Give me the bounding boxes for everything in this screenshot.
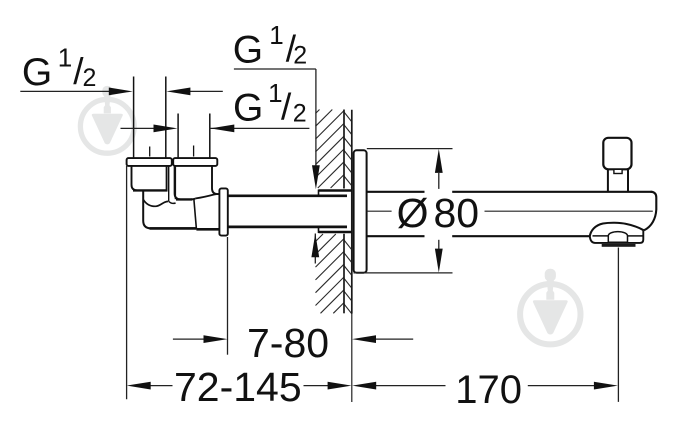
- elbow inner scallop: [143, 199, 168, 206]
- wall hatching: [316, 110, 345, 314]
- spout centreline: [367, 210, 653, 212]
- right union cup: [175, 166, 196, 200]
- aerator bulge: [590, 223, 644, 237]
- watermark bottom-right: [520, 269, 580, 345]
- dim 72-145: lines and arrows: [127, 166, 329, 399]
- svg-text:2: 2: [293, 100, 307, 128]
- escutcheon bar right: [173, 158, 217, 166]
- nut top edge: [195, 194, 219, 199]
- dim G1/2 right stub: label: [233, 78, 307, 129]
- svg-text:/: /: [281, 87, 292, 128]
- svg-text:G: G: [22, 51, 52, 94]
- union washer at pipe: [219, 188, 227, 235]
- escutcheon bar left: [127, 158, 172, 166]
- dim Ø80: extension lines: [354, 149, 453, 273]
- aerator collar: [590, 230, 644, 243]
- dim G1/2 left stub: leader and arrows: [20, 90, 223, 92]
- left pipe stub: [134, 77, 166, 159]
- collar inner line: [593, 235, 643, 237]
- svg-text:2: 2: [83, 64, 97, 92]
- dim G1/2 wall connector: label: [233, 20, 308, 71]
- left cup bottom heavy edge: [133, 189, 167, 191]
- wall finish layer chevrons: [344, 112, 352, 314]
- connector sleeve at wall: [319, 191, 352, 233]
- wall face line right: [351, 110, 353, 314]
- dim Ø80: arrows: [435, 149, 443, 273]
- stub centre ticks: [150, 146, 194, 157]
- aerator dome: [608, 232, 627, 243]
- aerator ring: [602, 244, 636, 247]
- right pipe stub: [178, 114, 210, 159]
- svg-text:1: 1: [269, 20, 283, 50]
- svg-text:7-80: 7-80: [247, 320, 329, 366]
- knob stem: [608, 169, 628, 192]
- nut bottom heavy line: [196, 228, 219, 231]
- dim G1/2 left stub: label: [22, 43, 97, 94]
- saddle under strip gap: [169, 202, 176, 204]
- svg-text:G: G: [233, 28, 263, 71]
- wall escutcheon flange: [354, 150, 367, 272]
- wall extension line to bottom dimensions: [351, 314, 353, 403]
- dim G1/2 right stub: leader and arrows: [121, 127, 310, 129]
- svg-text:170: 170: [455, 368, 522, 412]
- spout body top edge: [367, 191, 653, 193]
- dim 7-80: lines and arrows: [173, 237, 413, 355]
- left union cup: [132, 166, 167, 191]
- right cup bottom heavy edge: [176, 198, 192, 200]
- supply pipe (union to wall): [228, 196, 347, 227]
- svg-text:2: 2: [293, 42, 307, 70]
- dim G1/2 wall connector: leader: [234, 69, 316, 264]
- elbow / nut separator: [194, 199, 197, 229]
- elbow bottom heavy line: [150, 227, 197, 230]
- diverter knob: [603, 138, 631, 170]
- svg-text:Ø: Ø: [397, 190, 429, 236]
- spout end profile: [644, 192, 656, 231]
- right cup right side into nut: [212, 166, 219, 194]
- stem notch: [614, 169, 622, 173]
- svg-text:1: 1: [58, 43, 72, 73]
- elbow body: [143, 190, 196, 228]
- svg-text:G: G: [233, 86, 263, 129]
- inter-cup gap lines: [169, 166, 176, 202]
- watermark top-left: [80, 86, 134, 153]
- wall face line left: [343, 110, 345, 314]
- svg-text:80: 80: [434, 190, 480, 236]
- spout body bottom edge: [367, 235, 590, 237]
- svg-text:72-145: 72-145: [174, 364, 302, 410]
- dim 170: lines and arrows: [375, 248, 618, 402]
